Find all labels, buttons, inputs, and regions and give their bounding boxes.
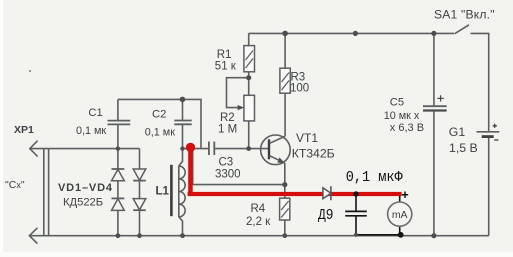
wire battery to bottom rail (488, 138, 490, 236)
svg-text:R4: R4 (251, 203, 266, 215)
resistor R1 body (244, 46, 255, 72)
svg-text:51 к: 51 к (215, 61, 237, 73)
svg-text:0,1 мк: 0,1 мк (145, 127, 175, 139)
inductor L1 bottom lead (179, 217, 183, 236)
svg-text:КТ342Б: КТ342Б (292, 146, 335, 160)
diode VD4 (133, 199, 146, 210)
inductor L1 coil (179, 166, 185, 217)
milliammeter plus (402, 192, 408, 198)
svg-text:L1: L1 (156, 185, 170, 197)
svg-text:Д9: Д9 (318, 207, 334, 224)
svg-text:КД522Б: КД522Б (63, 196, 103, 208)
svg-text:VT1: VT1 (296, 131, 318, 145)
capacitor C5 plates (423, 105, 447, 107)
resistor R3 leads (284, 33, 286, 136)
wire C1 to C2 top (118, 99, 201, 148)
battery G1 minus (494, 139, 498, 141)
svg-text:G1: G1 (449, 125, 466, 139)
svg-text:1,5 В: 1,5 В (449, 141, 478, 155)
battery G1 plus (493, 124, 497, 128)
capacitor C1 leads (117, 99, 119, 148)
resistor R1 leads (248, 33, 250, 95)
transistor VT1 emitter (270, 156, 285, 163)
diode D9 symbol (323, 186, 331, 200)
svg-text:3300: 3300 (215, 168, 241, 180)
svg-text:0,1 мк: 0,1 мк (76, 125, 106, 137)
svg-text:0,1 мкФ: 0,1 мкФ (346, 169, 403, 186)
capacitor C2 leads (182, 99, 184, 148)
diode VD1 (112, 168, 125, 170)
added capacitor bottom junction (354, 233, 358, 237)
svg-text:C1: C1 (88, 107, 102, 119)
capacitor C5 plus (438, 95, 444, 101)
svg-text:100: 100 (290, 83, 309, 95)
resistor R2 bottom lead (248, 121, 250, 149)
capacitor C1 plates (108, 121, 131, 125)
svg-text:10 мк х: 10 мк х (384, 110, 420, 122)
transistor VT1 base bar (268, 139, 270, 159)
connector XP1 pins (44, 149, 49, 237)
wire feedback emitter (193, 149, 285, 185)
svg-text:C5: C5 (390, 96, 404, 108)
inductor L1 core (170, 165, 173, 216)
resistor R1 hatch (246, 51, 254, 69)
milliammeter PA circle (388, 202, 412, 226)
transistor VT1 circle (261, 135, 291, 165)
transistor VT1 emitter arrow (277, 157, 285, 163)
transistor VT1 collector (270, 136, 285, 143)
svg-text:R1: R1 (217, 49, 232, 61)
potentiometer R2 body (244, 95, 255, 121)
svg-text:1 М: 1 М (218, 124, 237, 136)
wire node line to C3 (183, 148, 209, 150)
diode VD2 (112, 197, 125, 199)
resistor R4 body (280, 198, 290, 220)
arrow bottom left (29, 228, 37, 244)
resistor R3 body (280, 68, 290, 93)
red annotation wire vertical (188, 148, 193, 196)
svg-text:2,2 к: 2,2 к (246, 216, 271, 228)
svg-text:C3: C3 (219, 157, 234, 169)
arrow upper left (30, 141, 38, 157)
svg-text:х 6,3 В: х 6,3 В (390, 122, 424, 134)
red annotation node dot (186, 143, 195, 152)
resistor R4 hatch (281, 201, 288, 218)
battery G1 short plate (482, 135, 494, 138)
added capacitor plates (345, 211, 367, 215)
milliammeter bottom junction (398, 232, 404, 238)
potentiometer R2 wiper (227, 78, 249, 108)
red annotation wire horizontal (188, 192, 402, 196)
diode VD1 column lead (117, 149, 119, 236)
capacitor C2 plates (174, 121, 191, 125)
battery G1 long plate (477, 131, 500, 133)
wire top rail (249, 32, 454, 34)
diode VD3 column lead (139, 149, 141, 236)
resistor R3 hatch (282, 73, 290, 91)
svg-text:"Сх": "Сх" (5, 179, 25, 191)
wire switch to corner (471, 33, 489, 131)
svg-text:SA1 "Вкл.": SA1 "Вкл." (434, 8, 495, 22)
wire C3 to base (215, 148, 269, 150)
wire emitter down (284, 163, 286, 198)
potentiometer R2 wiper arrowhead (238, 105, 245, 110)
added black wire on bottom rail (356, 234, 401, 236)
svg-text:mA: mA (392, 209, 408, 221)
resistor R4 bottom lead (284, 220, 286, 236)
svg-text:C2: C2 (152, 109, 166, 121)
capacitor C3 plates (209, 142, 214, 156)
svg-text:VD1–VD4: VD1–VD4 (58, 182, 113, 194)
diode VD3 (133, 169, 146, 180)
inductor L1 top lead (179, 149, 183, 166)
svg-text:ХР1: ХР1 (14, 124, 34, 136)
added capacitor leads (355, 195, 357, 235)
switch SA1 lever (455, 25, 470, 34)
wire upper left line (30, 148, 140, 150)
svg-text:R2: R2 (220, 112, 235, 124)
added capacitor node dot (353, 191, 358, 196)
milliammeter PA leads (399, 196, 401, 235)
capacitor C5 bottom lead (433, 111, 435, 236)
capacitor C5 top lead (433, 33, 435, 105)
wire bottom rail (29, 235, 489, 237)
